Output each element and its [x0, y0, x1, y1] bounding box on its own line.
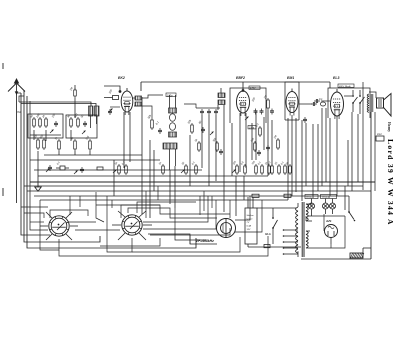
trimmer T1 arrow	[50, 129, 54, 133]
svg-text:Lord 39 W W 344 A: Lord 39 W W 344 A	[386, 139, 395, 226]
capacitor C11	[303, 117, 307, 123]
wire AZ1 output	[331, 216, 345, 248]
capacitor C26	[257, 150, 261, 156]
coil L7b	[135, 102, 142, 106]
wire transformer taps	[283, 229, 298, 255]
svg-text:7V 0,3A: 7V 0,3A	[322, 196, 331, 199]
wire drop x230	[229, 200, 231, 218]
wire harness 12	[128, 208, 217, 218]
capacitor C24	[270, 109, 274, 115]
wire harness 16	[132, 237, 240, 252]
wire harness 3	[40, 200, 59, 250]
wire top right drop	[329, 82, 331, 88]
resistor R7	[37, 138, 40, 150]
pilot lamp La2	[323, 203, 329, 209]
capacitor C4	[158, 128, 162, 134]
tube EM1	[286, 89, 298, 116]
wire harness 11	[121, 205, 230, 218]
wire harness 21	[30, 221, 44, 223]
wire EL3 anode link	[344, 95, 352, 97]
svg-text:Tel: Tel	[17, 110, 21, 114]
switch S2	[359, 95, 364, 104]
wire bus B y160	[30, 159, 160, 161]
wire row2 bus y155	[44, 154, 96, 156]
wire vert x358	[357, 114, 359, 182]
tube EK2	[121, 88, 133, 115]
wire drop x200	[199, 196, 201, 215]
wire harness 23	[100, 238, 160, 246]
resistor R14	[259, 126, 262, 137]
EK2 grid cap	[119, 90, 122, 93]
resistor Rm13	[284, 164, 287, 175]
wire grid cap EK2 feed	[104, 86, 120, 91]
EBF2 stage frame	[230, 88, 266, 123]
wire switch leads	[353, 90, 360, 114]
coil L6	[77, 117, 80, 128]
EBF2 grid cap	[242, 89, 245, 92]
capacitor C6	[207, 109, 211, 115]
svg-text:lampe: lampe	[247, 219, 254, 221]
capacitor C22	[80, 167, 84, 173]
wire selector leads	[248, 197, 253, 247]
wire bus J y205	[96, 204, 160, 206]
capacitor C3	[107, 96, 119, 100]
wire left bus x30	[30, 101, 48, 230]
wire EK2 left lead	[110, 106, 120, 108]
wire drop x204	[203, 191, 205, 211]
wire left bus x21	[21, 93, 50, 235]
svg-text:100p: 100p	[167, 94, 173, 97]
IF transformer Tr1 trimmer b	[170, 123, 176, 131]
pilot lamp La1	[309, 203, 315, 209]
resistor R16	[212, 137, 218, 152]
IF transformer Tr2 coil b	[218, 100, 225, 105]
wire harness 24	[175, 208, 206, 240]
svg-text:EM1: EM1	[287, 76, 294, 80]
capacitor C23	[108, 109, 112, 115]
label lamp box 2	[321, 195, 337, 199]
wire vert x348	[347, 140, 349, 186]
label 150p box	[248, 126, 256, 130]
IF transformer Tr1 coil a	[169, 108, 177, 113]
wire top bus drop left	[140, 82, 142, 91]
wire feeder stub	[19, 96, 24, 102]
wire bus G y191	[27, 190, 371, 192]
capacitor C12	[311, 102, 317, 106]
wire bus F y186	[24, 185, 363, 187]
svg-text:AZ1: AZ1	[325, 219, 332, 223]
svg-text:EL3: EL3	[333, 76, 339, 80]
wire vert x313	[312, 124, 314, 196]
wire EK2 screen	[134, 106, 152, 118]
wire speaker top	[369, 92, 376, 98]
svg-text:ZF=468kHz: ZF=468kHz	[195, 239, 214, 243]
wire harness 5	[96, 192, 104, 222]
tube socket V2 bottom view	[122, 215, 142, 235]
svg-text:Horny: Horny	[387, 122, 391, 132]
wire vert x232	[231, 123, 233, 176]
voltage selector box	[245, 208, 257, 244]
wire EBF2 right drops	[256, 110, 272, 176]
IF transformer Tr1 trimmer a	[170, 114, 176, 122]
wire input block bottom	[30, 134, 61, 136]
wire vert x190	[189, 135, 191, 186]
trimmer T3 arrow	[210, 131, 214, 135]
resistor R5	[277, 138, 280, 150]
wire EM1 aux verticals	[302, 120, 306, 201]
antenna A1	[8, 78, 25, 203]
trimmer T5 arrow	[181, 169, 185, 173]
resistor Rm11	[271, 164, 274, 175]
EM1 frame	[285, 82, 299, 120]
wire rail risers	[350, 248, 371, 259]
wire vert x330	[329, 118, 331, 196]
trimmer T9 arrow	[109, 108, 113, 112]
wire feeder y103.5	[21, 104, 96, 107]
wire EK2 to IF1	[142, 95, 164, 98]
wire bus C y170	[34, 169, 202, 171]
resistor Rm6	[236, 164, 239, 175]
wire bus I y200	[40, 199, 288, 201]
wire harness 8	[143, 196, 208, 222]
trimmer T6 arrow	[232, 169, 236, 173]
svg-text:7V 0,3A: 7V 0,3A	[306, 196, 315, 199]
wire vert x142	[141, 97, 143, 214]
wire osc top rail	[196, 107, 220, 109]
wire right bus x375	[374, 112, 376, 191]
capacitor C2	[83, 121, 87, 127]
pilot lamp La3	[330, 203, 336, 209]
capacitor C9	[254, 109, 258, 115]
wire left bus x24	[24, 90, 100, 242]
resistor R11	[89, 139, 92, 151]
wire harness 20	[148, 234, 217, 244]
capacitor C28 right edge	[376, 134, 384, 141]
switch S1	[352, 95, 357, 104]
wire lamp leads	[308, 199, 345, 217]
coil L2	[39, 117, 42, 128]
resistor Rm3	[162, 164, 165, 175]
trimmer T2 arrow	[82, 130, 86, 134]
IF transformer Tr2 coil a	[218, 93, 225, 98]
capacitor C14	[314, 99, 320, 103]
resistor Rm7	[244, 164, 247, 175]
wire antenna link	[17, 92, 22, 94]
trimmer T7 arrow	[46, 168, 50, 172]
wire AZ1 left lead	[323, 214, 325, 231]
tube EL3	[331, 89, 344, 119]
coil L7a	[135, 96, 142, 100]
wire EM1 box bottom	[285, 119, 299, 121]
label lamp box 1	[305, 195, 318, 199]
wire harness 25	[150, 228, 230, 235]
wire vert x236	[235, 176, 237, 216]
wire harness 26	[189, 235, 191, 244]
tube socket V1 bottom view	[49, 216, 69, 236]
capacitor C20	[48, 165, 52, 171]
capacitor C7	[214, 109, 218, 115]
capacitor C10	[260, 109, 264, 115]
coil L5	[70, 117, 73, 128]
wire vert x224	[223, 112, 225, 212]
wire EBF2 cathode drops	[240, 113, 246, 172]
resistor R17	[250, 137, 256, 152]
wire socket V1 leads	[40, 212, 78, 240]
wire harness 2	[24, 213, 44, 218]
wire EM1 drops	[288, 115, 296, 200]
svg-text:3d m: 3d m	[265, 233, 272, 236]
wire harness 6	[107, 196, 132, 252]
capacitor C5	[200, 109, 204, 115]
wire vert x150	[149, 140, 151, 218]
resistor R3	[191, 123, 194, 134]
wire Tr2 leads	[218, 88, 224, 112]
resistor R10	[74, 139, 77, 151]
wire row2 drops	[34, 130, 90, 183]
svg-text:0,3A: 0,3A	[247, 225, 252, 228]
resistor R9	[58, 139, 61, 151]
wire right bus x363	[362, 82, 364, 190]
wire harness 17	[59, 236, 268, 256]
wire harness 9	[143, 200, 216, 229]
resistor Rm12	[278, 164, 281, 175]
wire EL3 grid	[321, 100, 330, 102]
plug component X1	[264, 245, 270, 248]
wire drop x146	[145, 191, 147, 218]
wire top bus y82	[141, 81, 330, 83]
IF transformer Tr1 coil b	[169, 132, 177, 137]
wire vert x170	[169, 170, 171, 204]
IF transformer Tr1 coil c	[163, 143, 177, 149]
svg-text:EK2: EK2	[118, 76, 125, 80]
resistor R8	[43, 138, 46, 150]
wire vert x244	[243, 176, 245, 200]
wire Tr1 leads	[170, 95, 176, 170]
wire EK2 anode	[133, 97, 135, 99]
wire vert x114	[113, 160, 115, 196]
wire vert x352	[351, 112, 353, 191]
wire bus E y182	[30, 181, 375, 183]
wire bus D y176	[38, 175, 268, 177]
coil block L4 frame	[66, 115, 97, 138]
wire EK2 grid left	[104, 97, 107, 99]
wire vert x322	[321, 108, 323, 186]
trimmer T4 arrow	[113, 169, 117, 173]
svg-text:12V: 12V	[247, 229, 251, 231]
label selector note	[247, 215, 255, 231]
loudspeaker LS1	[377, 94, 392, 117]
output transformer Tr3	[367, 94, 373, 112]
wire bus H y196	[34, 195, 349, 197]
resistor Rm1	[118, 164, 121, 175]
fuse F1	[252, 194, 259, 197]
wire harness 18	[50, 210, 88, 218]
capacitor C8	[201, 127, 205, 133]
wire EL3 cathode	[336, 116, 338, 196]
wire vert x326	[325, 108, 327, 182]
wire drop x212	[211, 196, 213, 208]
resistor R4	[267, 98, 270, 110]
trimmer T10 arrow	[245, 116, 249, 120]
wire vert x318	[317, 124, 319, 191]
tube EBF2	[237, 88, 250, 116]
resistor Rm5	[195, 164, 198, 175]
trimmer oval C13	[320, 102, 325, 106]
page edge tick bottom	[2, 188, 4, 196]
ground G1	[35, 183, 41, 191]
resistor Rm2	[125, 164, 128, 175]
coil L3	[45, 117, 48, 128]
wire EM1 right	[299, 103, 312, 105]
resistor R13	[198, 141, 201, 152]
wire osc drops	[202, 115, 216, 186]
wire harness 13	[137, 202, 196, 213]
wire bottom rail	[301, 258, 371, 260]
svg-text:380V 36mA: 380V 36mA	[339, 85, 351, 88]
wire harness 19	[111, 200, 113, 208]
capacitor C25	[219, 149, 223, 155]
resistor Rm4	[185, 164, 188, 175]
svg-text:Skalen-: Skalen-	[247, 215, 255, 217]
wire mains top	[257, 207, 296, 209]
wire mains bottom	[248, 246, 301, 248]
wire vert x154	[153, 150, 155, 191]
page edge tick top	[2, 63, 4, 69]
wire vert x175	[174, 166, 176, 208]
wire drop x158	[157, 186, 159, 200]
label Tr1 100pF	[166, 93, 176, 97]
svg-text:170V: 170V	[250, 87, 256, 90]
wire harness 15	[235, 200, 262, 232]
label EL3 note	[338, 84, 354, 88]
capacitor C21	[56, 166, 69, 170]
coil pair L8	[89, 106, 100, 128]
resistor R2	[151, 118, 154, 130]
svg-text:0.1: 0.1	[319, 98, 323, 101]
resistor R1	[33, 117, 36, 128]
wire harness 7	[75, 229, 120, 231]
label EBF2 note	[249, 86, 260, 90]
resistor Rm9	[261, 164, 264, 175]
resistor Rm10	[268, 164, 271, 175]
svg-text:EBF2: EBF2	[236, 76, 245, 80]
wire harness 4	[69, 196, 71, 215]
dial lamp D1	[217, 219, 236, 238]
wire vert x252	[251, 123, 253, 160]
EL3 stage frame	[328, 88, 370, 118]
wire bus A y155	[96, 154, 142, 156]
wire left bus x27	[27, 96, 196, 248]
wire harness 22	[79, 196, 81, 207]
wire lamp feed	[305, 216, 307, 221]
capacitor C27	[266, 145, 270, 151]
wire vert x345	[344, 186, 346, 210]
trimmer T8 arrow	[74, 170, 78, 174]
resistor R12h	[97, 167, 103, 170]
wire harness 14	[235, 196, 250, 220]
wire transformer top taps	[306, 204, 331, 248]
fuse F2	[284, 194, 291, 197]
wire top EBF2 drop	[242, 82, 244, 88]
wire feeder y102	[19, 102, 91, 106]
wire EK2 cathode drops	[124, 112, 130, 168]
power transformer Tr4	[296, 202, 309, 257]
rectifier tube AZ1	[325, 225, 338, 245]
switch S3 mains	[272, 208, 277, 244]
resistor Rm14	[289, 164, 292, 175]
wire EBF2 anode	[242, 88, 244, 91]
wire harness 1	[21, 206, 48, 208]
coil block L1 frame	[28, 114, 63, 138]
resistor R15 vertical	[74, 85, 77, 118]
switch S4	[348, 196, 355, 221]
svg-text:LGd: LGd	[377, 134, 382, 136]
resistor R6 dropper	[350, 253, 364, 258]
capacitor C1	[54, 121, 58, 127]
wire osc feed	[184, 104, 196, 108]
wire harness 10	[68, 221, 96, 223]
resistor Rm8	[255, 164, 258, 175]
wire socket V2 leads	[112, 211, 152, 240]
wire right bus x371	[370, 112, 372, 259]
